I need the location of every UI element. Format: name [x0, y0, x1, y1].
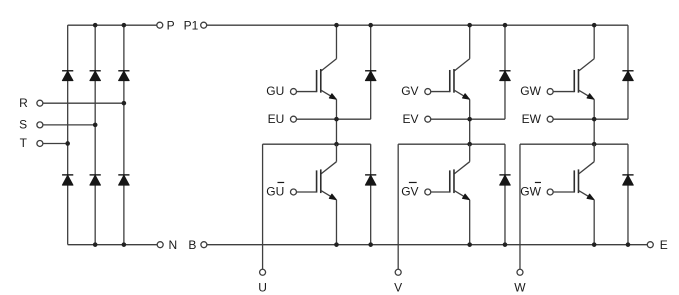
svg-text:P1: P1 — [184, 18, 199, 32]
svg-text:GV: GV — [401, 184, 418, 198]
svg-text:EW: EW — [522, 112, 542, 126]
svg-text:GW: GW — [520, 184, 541, 198]
svg-text:EU: EU — [268, 112, 285, 126]
svg-text:W: W — [514, 280, 526, 294]
svg-text:GU: GU — [266, 184, 284, 198]
svg-text:T: T — [20, 136, 28, 150]
svg-text:S: S — [19, 118, 27, 132]
svg-text:U: U — [258, 280, 267, 294]
svg-text:E: E — [660, 238, 668, 252]
svg-text:EV: EV — [403, 112, 419, 126]
svg-text:GW: GW — [520, 84, 541, 98]
svg-text:GU: GU — [266, 84, 284, 98]
svg-text:V: V — [394, 280, 402, 294]
svg-text:GV: GV — [401, 84, 418, 98]
svg-text:R: R — [19, 96, 28, 110]
svg-text:B: B — [188, 238, 196, 252]
svg-text:P: P — [167, 18, 175, 32]
svg-text:N: N — [168, 238, 177, 252]
